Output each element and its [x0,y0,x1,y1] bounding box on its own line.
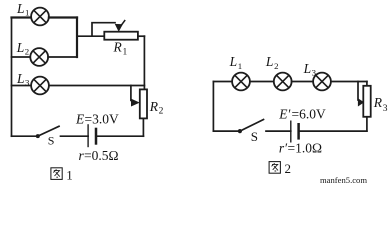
resistor R2 (rheostat box) [140,89,147,118]
svg-text:2: 2 [285,161,292,176]
svg-text:E′: E′ [278,107,291,122]
svg-text:=6.0V: =6.0V [292,107,326,122]
wire: L1 branch right segment [49,16,77,18]
lamp L3 (circuit 2) [313,73,331,91]
svg-text:3: 3 [312,67,317,77]
wire: circuit 2 right rail upper [366,82,368,86]
wire: circuit 2 right rail lower [366,117,368,131]
wire: circuit 1 bottom wire left of switch [12,135,38,137]
arrow: R2 slider arrowhead [131,99,138,106]
svg-text:manfen5.com: manfen5.com [320,175,367,185]
wire: R1 right to right rail [138,35,145,37]
wire: L2 branch left segment [12,56,31,58]
wire: L1 branch left segment [12,16,32,18]
label E'=6.0V [278,107,326,122]
label L1 [16,1,29,18]
wire: circuit 2 left rail [212,82,214,132]
switch S (circuit 1) pivot dot [36,134,40,138]
wire: battery 1 to switch [61,135,89,137]
lamp L1 (circuit 2) [232,73,250,91]
wire: circuit 2 bottom wire right of battery [299,130,367,132]
resistor R3 (rheostat box) [363,86,370,117]
svg-text:1: 1 [66,167,73,182]
label L3 (circuit 2) [303,61,317,78]
wire: circuit 1 right rail upper [143,36,145,89]
wire: L3 branch right segment [49,85,144,87]
label L3 [16,71,30,87]
svg-text:E: E [75,111,85,126]
lamp L2 (circuit 2) [274,73,292,91]
svg-text:2: 2 [159,107,164,117]
label R2 [149,99,164,117]
wire: R1 slider tap wire [92,23,115,37]
wire: circuit 2 top wire right segment [331,81,367,83]
wire: circuit 2 top wire between L2 and L3 [292,81,314,83]
svg-text:S: S [251,129,258,144]
battery cell 1: long thin plate [87,124,89,147]
svg-text:=3.0V: =3.0V [85,111,119,126]
svg-text:1: 1 [123,48,128,58]
svg-text:=0.5Ω: =0.5Ω [84,148,119,163]
label figure 2 glyph (tu character) [269,162,280,174]
wire: circuit 1 right rail lower [142,118,144,136]
wire: R3 slider tail [357,82,359,101]
svg-text:L: L [16,40,25,55]
label R3 [373,95,388,114]
wire: circuit 2 top wire left segment [213,81,232,83]
battery cell 1: short thick plate [95,128,98,145]
svg-text:1: 1 [238,61,242,71]
label L2 [16,40,29,57]
lamp L2 (circuit 1) [30,48,48,66]
label R1 [113,40,128,58]
lamp L3 (circuit 1) [31,77,49,95]
svg-text:R: R [113,40,123,55]
wire: circuit 1 left rail [11,18,13,137]
svg-text:L: L [265,54,274,69]
svg-text:3: 3 [383,104,388,114]
arrow: R3 slider arrowhead [358,99,363,106]
label r'=1.0 ohm [279,141,322,156]
switch S (circuit 2) lever [240,120,264,132]
battery cell 2: long thin plate [290,121,292,143]
switch S (circuit 1) lever [38,126,59,136]
svg-text:L: L [303,61,312,76]
svg-text:2: 2 [25,46,29,56]
svg-text:R: R [373,95,383,110]
label r=0.5 ohm [79,148,119,163]
label L1 (circuit 2) [229,54,243,71]
svg-text:L: L [229,54,238,69]
wire: circuit 1 bottom wire right of battery [96,135,143,137]
wire: circuit 2 bottom wire left of switch [213,130,240,132]
svg-text:=1.0Ω: =1.0Ω [288,141,323,156]
svg-text:3: 3 [25,77,30,87]
svg-text:R: R [149,99,159,114]
label E=3.0V [75,111,119,126]
svg-text:1: 1 [25,7,29,17]
wire: vertical connector between L1 and L2 branches [76,18,78,58]
wire: circuit 2 top wire between L1 and L2 [250,81,274,83]
resistor R1 (rheostat box) [104,32,138,40]
arrow: R1 slider arrowhead [115,20,125,31]
wire: middle wire from parallel pair to R1 [77,35,104,37]
wire: battery 2 to switch [266,130,291,132]
wire: L2 branch right segment [48,56,77,58]
lamp L1 (circuit 1) [31,8,49,26]
svg-text:L: L [16,1,25,16]
wire: R2 slider tail [130,86,132,101]
svg-text:L: L [16,71,25,86]
switch S (circuit 2) pivot dot [238,129,242,133]
svg-text:2: 2 [274,61,278,71]
wire: L3 branch left segment [12,85,32,87]
label L2 (circuit 2) [265,54,279,71]
label figure 1 glyph (tu character) [51,168,62,180]
svg-text:S: S [48,133,55,147]
battery cell 2: short thick plate [297,123,300,140]
